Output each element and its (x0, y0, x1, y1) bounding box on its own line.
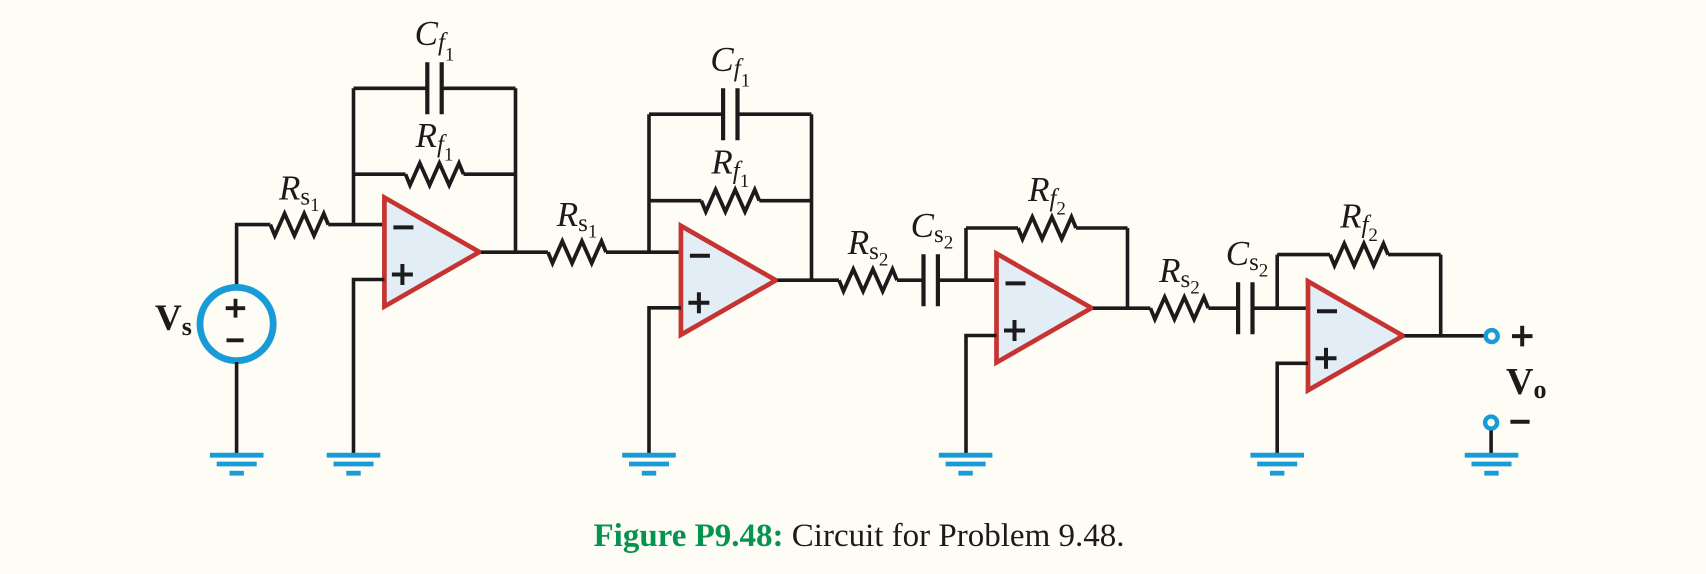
wire from Rs1 to op-amp U1 inverting input (328, 223, 384, 227)
op-amp U4 minus input marker (1317, 309, 1337, 313)
op-amp U2 (681, 226, 776, 335)
wire to Rf2 (stage 3) (966, 226, 1018, 230)
ground (op-amp U2) (622, 453, 676, 458)
capacitor Cf1 (stage 2) (721, 88, 725, 140)
source plus sign (226, 306, 246, 310)
ground (op-amp U3) (939, 453, 993, 458)
wire op-amp U1 output to Rs1 (stage 2) (481, 250, 548, 254)
wire to Rf1 (stage 1) (354, 172, 406, 176)
svg-text:Figure P9.48: Circuit for Prob: Figure P9.48: Circuit for Problem 9.48. (594, 518, 1125, 554)
resistor Rf1 (stage 2 feedback) (701, 190, 759, 212)
op-amp U4 (1308, 281, 1403, 390)
resistor Rs2 (stage 4 input) (1150, 297, 1208, 319)
resistor Rf2 (stage 3 feedback) (1018, 217, 1076, 239)
wire to Rf2 (stage 4) (1277, 253, 1330, 257)
op-amp U2 minus input marker (690, 254, 710, 258)
wire from Rf1 to right vertical (stage 2) (759, 199, 811, 203)
terminal Vo minus node (1485, 417, 1497, 429)
wire from Rf2 to right vertical (stage 3) (1076, 226, 1128, 230)
wire to Rf1 (stage 2) (649, 199, 701, 203)
wire from Cs2 to op-amp U4 inverting input (1253, 306, 1309, 310)
output plus sign (1512, 334, 1533, 338)
wire op-amp U2 noninverting input to ground (649, 308, 681, 453)
ground (below source) (210, 453, 264, 458)
wire feedback right vertical (stage 1) (514, 88, 518, 252)
resistor Rs2 (stage 3 input) (839, 269, 897, 291)
op-amp U3 plus input marker (1004, 329, 1025, 333)
capacitor Cf1 (stage 1) (425, 62, 429, 114)
op-amp U1 (384, 198, 479, 307)
resistor Rs1 (stage 1 input) (270, 214, 328, 236)
wire from source bottom to ground (235, 362, 239, 453)
wire from Rf1 to right vertical (stage 1) (464, 172, 516, 176)
ground (op-amp U4) (1250, 453, 1304, 458)
wire op-amp U4 output to terminal (1405, 334, 1484, 338)
wire from source top to Rs1 (237, 225, 271, 286)
wire feedback left vertical (stage 4) (1275, 255, 1279, 309)
wire feedback right vertical (stage 4) (1439, 255, 1443, 336)
wire feedback right vertical (stage 3) (1126, 228, 1130, 308)
ground (op-amp U1) (327, 453, 381, 458)
op-amp U3 (997, 254, 1092, 363)
wire op-amp U3 output to Rs2 (stage 4) (1093, 306, 1150, 310)
wire op-amp U4 noninverting input to ground (1277, 363, 1308, 453)
resistor Rs1 (stage 2 input) (548, 241, 606, 263)
output minus sign (1510, 420, 1529, 424)
source minus sign (227, 338, 244, 342)
ground (output) (1465, 453, 1519, 458)
wire from Rs2 to Cs2 (stage 4) (1208, 306, 1238, 310)
capacitor Cs2 (stage 3) (921, 254, 925, 306)
op-amp U1 plus input marker (392, 273, 413, 277)
wire feedback left vertical (stage 3) (964, 228, 968, 280)
wire feedback right vertical (stage 2) (810, 114, 814, 280)
resistor Rf1 (stage 1 feedback) (406, 163, 464, 185)
op-amp U2 plus input marker (688, 301, 709, 305)
wire op-amp U3 noninverting input to ground (966, 336, 997, 454)
wire feedback left vertical (stage 2) (647, 114, 651, 252)
wire from Rf2 to right vertical (stage 4) (1388, 253, 1441, 257)
capacitor Cs2 (stage 4) (1236, 282, 1240, 334)
wire from Rs1 to op-amp U2 inverting input (606, 250, 681, 254)
source Vs circle (200, 287, 273, 360)
wire terminal to ground stem (1489, 431, 1493, 454)
wire from Cf1 right plate (stage 1) (442, 87, 516, 91)
wire to Cf1 left plate (stage 2) (649, 112, 723, 116)
terminal Vo plus node (1486, 330, 1498, 342)
resistor Rf2 (stage 4 feedback) (1330, 244, 1388, 266)
wire feedback left vertical (stage 1) (352, 88, 356, 224)
wire op-amp U1 noninverting input to ground (354, 280, 385, 454)
wire from Cf1 right plate (stage 2) (737, 112, 811, 116)
wire op-amp U2 output to Rs2 (stage 3) (777, 278, 839, 282)
wire from Cs2 to op-amp U3 inverting input (938, 278, 997, 282)
op-amp U3 minus input marker (1006, 281, 1026, 285)
op-amp U1 minus input marker (393, 225, 413, 229)
op-amp U4 plus input marker (1316, 356, 1337, 360)
wire to Cf1 left plate (stage 1) (354, 87, 428, 91)
wire from Rs2 to Cs2 (stage 3) (897, 278, 924, 282)
